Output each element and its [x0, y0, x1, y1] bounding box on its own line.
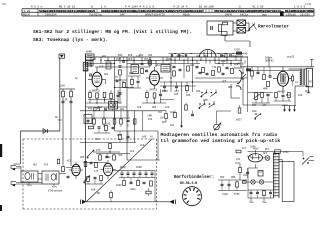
capacitor C12	[206, 72, 209, 74]
svg-text:n3F: n3F	[262, 104, 267, 107]
svg-text:SK3: Toneknap (lys - mørk).: SK3: Toneknap (lys - mørk).	[33, 37, 108, 43]
svg-text:MU 5 10 15: MU 5 10 15	[59, 6, 76, 9]
IF transformer box Ta	[86, 54, 95, 60]
svg-text:FM-enhed: FM-enhed	[47, 189, 62, 193]
wire x231	[230, 84, 232, 98]
svg-text:C02: C02	[170, 111, 175, 114]
wire right bus stub	[311, 59, 313, 67]
scan mark left edge 2	[0, 205, 2, 211]
voltmeter filter pot	[222, 32, 228, 36]
capacitor C18	[94, 176, 97, 178]
voltmeter filter top part	[223, 22, 228, 25]
svg-text:282: 282	[117, 134, 122, 137]
detector IF can dome	[199, 50, 216, 58]
ground box A	[28, 182, 30, 185]
tube socket circle	[183, 187, 202, 206]
resistor R22	[261, 92, 264, 97]
wire antenna down	[59, 58, 61, 131]
resistor R9	[103, 119, 106, 124]
IF can box mid	[109, 102, 118, 110]
resistor R10	[93, 119, 96, 124]
svg-text:B9-9A-9-B: B9-9A-9-B	[180, 181, 197, 185]
resistor R3b	[110, 93, 113, 98]
SK1 contacts row2	[199, 103, 201, 105]
svg-text:pnk: pnk	[247, 155, 252, 158]
FM unit enclosure dashed	[23, 138, 157, 140]
component n4	[127, 135, 130, 137]
svg-text:8M0: 8M0	[228, 86, 233, 89]
svg-text:pnp25: pnp25	[287, 56, 295, 59]
svg-text:P M 1144 M M 2 6 0: P M 1144 M M 2 6 0	[125, 6, 154, 9]
svg-text:273: 273	[96, 149, 101, 152]
wire mains	[279, 161, 294, 163]
capacitor twin a	[62, 100, 65, 102]
mains switch SK4	[303, 158, 305, 160]
resistor R31	[263, 190, 266, 195]
resistor R6	[133, 119, 136, 124]
svg-text:pM1: pM1	[92, 58, 97, 61]
resistor Rf2	[70, 91, 73, 97]
svg-text:Mk10MM4k9kB74M6k: Mk10MM4k9kB74M6k	[285, 9, 314, 13]
dial scale strip dark cell	[280, 11, 284, 16]
svg-text:8CM: 8CM	[129, 72, 134, 75]
balun box A	[21, 171, 38, 182]
svg-text:967: 967	[162, 121, 167, 124]
svg-text:27F2: 27F2	[283, 151, 289, 154]
IF transformer T2 box	[131, 65, 139, 74]
wire h100	[160, 99, 174, 101]
V3 pins	[282, 67, 284, 71]
antenna line tick	[58, 119, 63, 121]
component cluster mid	[186, 85, 189, 90]
resistor R11	[88, 126, 93, 129]
capacitor C1	[117, 94, 120, 96]
svg-text:C86n: C86n	[250, 146, 256, 149]
svg-text:176: 176	[94, 170, 99, 173]
svg-text:4CC: 4CC	[67, 160, 72, 163]
resistor R27	[87, 176, 90, 181]
terminal bottom left	[82, 200, 86, 205]
fm grid part	[62, 166, 65, 171]
svg-text:CR3: CR3	[80, 156, 85, 159]
tube V1 ECH81	[92, 72, 102, 86]
svg-text:86M: 86M	[203, 99, 208, 102]
wire fm mid	[83, 162, 107, 164]
part m3	[104, 108, 106, 111]
svg-text:84n: 84n	[243, 174, 248, 177]
svg-text:5M74911862W52760k1W89WB55M5979: 5M74911862W52760k1W89WB55M5979W71B147	[214, 9, 281, 13]
wire box B out	[59, 173, 66, 175]
FM input terminal J2	[11, 181, 16, 183]
svg-text:MnC: MnC	[33, 164, 38, 167]
svg-text:RC7: RC7	[265, 148, 270, 151]
svg-text:R589: R589	[183, 14, 190, 17]
wire jack pair 2	[16, 182, 42, 184]
wire rect bottom	[255, 164, 257, 168]
wire h70 right	[248, 70, 300, 72]
svg-text:815: 815	[174, 93, 179, 96]
output transformer T5	[300, 69, 302, 86]
svg-text:6M5: 6M5	[220, 55, 225, 58]
capacitor C15	[267, 93, 270, 95]
capacitor C13	[226, 66, 229, 68]
inter-tube cluster	[131, 79, 134, 84]
svg-text:4 13 14 4: 4 13 14 4	[173, 6, 188, 9]
wire lower h152	[93, 151, 120, 153]
capacitor C13b	[222, 72, 225, 74]
ground ps1	[250, 198, 252, 202]
wire speaker return	[295, 85, 309, 87]
resistor R33	[239, 167, 242, 172]
wire jack up	[216, 111, 218, 124]
dial lamp LP2	[251, 180, 255, 184]
svg-text:0C6: 0C6	[305, 90, 310, 93]
fm caps row	[121, 172, 124, 174]
wire ps bottom	[248, 189, 274, 191]
svg-text:C67: C67	[158, 111, 163, 114]
wire v1 drops	[89, 90, 91, 92]
svg-text:4F3: 4F3	[263, 152, 268, 155]
wire h107	[86, 106, 128, 108]
svg-text:09960308B246281948Bk2199k3518M: 09960308B246281948Bk2199k3518M190937k86W…	[101, 9, 204, 13]
svg-text:04FM: 04FM	[225, 14, 232, 17]
wire v2 drops	[146, 98, 148, 103]
IF transformer box Tb	[86, 61, 94, 67]
wire lamps	[242, 181, 251, 183]
svg-text:40C: 40C	[104, 73, 109, 76]
svg-text:kC9: kC9	[190, 64, 195, 67]
wire br top	[218, 179, 247, 181]
capacitor C7	[159, 93, 162, 95]
resistor R15	[187, 66, 190, 71]
resistor R5	[141, 68, 144, 73]
svg-text:8R5C0: 8R5C0	[92, 90, 100, 93]
IF transformer T3 box	[161, 65, 170, 73]
wire jack pair 1	[16, 165, 21, 167]
svg-text:8F5: 8F5	[128, 58, 133, 61]
svg-text:C97: C97	[144, 58, 149, 61]
FM input terminal J1	[11, 165, 16, 167]
svg-text:15F: 15F	[148, 118, 153, 121]
dark label block right	[246, 68, 251, 71]
wire fm cap row bus	[113, 170, 155, 172]
wire right bus	[240, 66, 314, 68]
svg-text:Rørforbindelser:: Rørforbindelser:	[174, 175, 214, 180]
pot R11b	[94, 108, 100, 111]
capacitor twin b	[70, 100, 73, 102]
wire h92 right	[248, 92, 273, 94]
wire voltmeter probes	[233, 22, 237, 24]
svg-text:124D: 124D	[305, 3, 312, 6]
wire br bottom	[218, 190, 247, 192]
resistor R12	[146, 92, 149, 97]
voltmeter filter box	[207, 21, 233, 35]
V1 pins	[96, 67, 98, 72]
dial scale row1 extra ticks	[93, 10, 95, 12]
arrow down AVC	[181, 121, 183, 128]
wire top bus	[86, 56, 249, 58]
wire grounds top	[282, 105, 296, 107]
coupling R25a	[251, 71, 254, 76]
ladder stubs	[93, 111, 95, 119]
resistor R29	[110, 192, 113, 197]
resistor R8	[113, 119, 116, 124]
antenna plug arrow	[43, 129, 47, 134]
voltmeter arrow	[249, 24, 256, 30]
pickup jack	[214, 124, 220, 130]
wire h110 mid	[160, 110, 196, 112]
wire stub 269	[268, 58, 270, 67]
svg-text:12p: 12p	[136, 55, 141, 58]
dial scale strip frame	[22, 8, 314, 10]
svg-text:CR7: CR7	[252, 104, 257, 107]
svg-text:RpC: RpC	[286, 94, 291, 97]
svg-text:732: 732	[110, 106, 115, 109]
wire v x243 down	[242, 84, 244, 105]
svg-text:2R8: 2R8	[152, 106, 157, 109]
svg-text:881: 881	[120, 108, 125, 111]
svg-text:41 2 03: 41 2 03	[252, 6, 264, 9]
resistor R19	[231, 68, 234, 73]
tube V5 ECC85b	[103, 163, 112, 175]
capacitor C28	[269, 191, 272, 193]
svg-text:608: 608	[252, 110, 257, 113]
wire fm r30	[148, 194, 150, 196]
wire lattice rows A	[104, 59, 160, 61]
capacitor C2	[119, 65, 122, 67]
svg-text:69C7: 69C7	[236, 119, 242, 122]
wire rect to lamp	[263, 157, 266, 159]
capacitor C6	[98, 126, 101, 128]
wire left drop	[20, 131, 22, 164]
component q1	[238, 108, 241, 113]
svg-text:84F: 84F	[120, 14, 125, 17]
tuning gang diagonal	[86, 139, 152, 202]
V5 pins	[107, 160, 109, 163]
svg-text:810: 810	[298, 94, 303, 97]
svg-text:6CM: 6CM	[99, 66, 104, 69]
svg-text:R33: R33	[118, 54, 123, 57]
antenna terminal A1	[59, 54, 65, 58]
mains transformer T6	[273, 153, 275, 199]
svg-text:526k01B81590830166131860B913kk: 526k01B81590830166131860B913kk9	[39, 9, 95, 13]
component m1	[174, 112, 177, 117]
voltmeter probe box X2	[237, 28, 246, 34]
wire fm right drop	[154, 171, 156, 202]
upper row parts	[170, 54, 172, 57]
component n3	[119, 134, 122, 139]
wire mains leads	[309, 160, 315, 162]
wire box A-B	[38, 173, 42, 175]
wire avc drop	[181, 82, 183, 121]
svg-text:C69: C69	[196, 90, 201, 93]
ground G3	[294, 106, 296, 112]
ferrite rod hook	[237, 70, 242, 84]
svg-text:k6R: k6R	[91, 189, 96, 192]
wire fm caps bottom	[119, 177, 155, 179]
svg-text:5M7Ck: 5M7Ck	[150, 88, 158, 92]
resistor R28	[100, 175, 103, 180]
svg-text:813C: 813C	[116, 184, 122, 187]
wire h105 right	[243, 104, 288, 106]
wire twin lead down a	[62, 97, 64, 102]
wire T6 inner loop	[281, 159, 283, 201]
wire h103 right	[252, 102, 270, 104]
svg-text:kCC: kCC	[242, 147, 247, 150]
coupling C14b	[269, 75, 272, 77]
svg-text:C23: C23	[221, 60, 226, 63]
capacitor C16	[67, 175, 70, 177]
V4 pins	[75, 162, 77, 165]
svg-text:44003: 44003	[277, 91, 285, 94]
svg-text:RnR: RnR	[128, 54, 133, 57]
svg-text:n08: n08	[196, 55, 201, 58]
svg-text:F6M: F6M	[116, 58, 121, 61]
SK3 switch	[255, 113, 257, 115]
svg-text:0kp: 0kp	[232, 55, 237, 58]
svg-text:575F: 575F	[234, 193, 240, 196]
wire left rail	[85, 54, 87, 202]
svg-text:7R6: 7R6	[118, 154, 123, 157]
resistor R3	[103, 92, 106, 97]
svg-text:Modtageren omstilles automatis: Modtageren omstilles automatisk fra radi…	[161, 132, 278, 138]
resistor R32	[236, 182, 239, 187]
svg-text:4M4: 4M4	[231, 176, 236, 179]
wire twin lead top	[60, 88, 75, 90]
switch FM lower	[87, 151, 93, 157]
wire mid rows	[160, 59, 240, 61]
svg-text:558: 558	[180, 55, 185, 58]
rectifier V6 EZ80	[249, 154, 263, 162]
svg-text:F8p: F8p	[88, 107, 93, 110]
fm switch arrow 2	[84, 177, 90, 183]
tube V4 ECC85a	[72, 164, 80, 176]
tube V3 EL84	[278, 71, 289, 86]
resistor R25	[84, 161, 87, 166]
SK1 stubs	[206, 90, 208, 93]
svg-text:Mkk: Mkk	[204, 55, 209, 58]
capacitor C30	[228, 183, 231, 185]
antenna coil L1	[83, 63, 88, 72]
svg-text:43k: 43k	[148, 54, 153, 57]
wire mid cols	[162, 57, 164, 64]
fm top component	[57, 159, 59, 164]
svg-text:M U 5 m: M U 5 m	[31, 6, 43, 9]
V1 grid cap	[89, 74, 91, 77]
coupling C14	[257, 71, 260, 73]
svg-text:693: 693	[220, 176, 225, 179]
resistor R23	[267, 81, 270, 86]
voltmeter probe box X1	[237, 20, 246, 26]
wire ladder cols	[134, 111, 136, 143]
resistor R2	[96, 93, 99, 98]
svg-text:3n0: 3n0	[140, 144, 145, 147]
wire lattice cols A	[90, 57, 92, 67]
resistor R20	[165, 113, 168, 118]
wire r20	[165, 111, 167, 114]
wire upper parallel	[169, 53, 245, 55]
svg-text:48MM: 48MM	[86, 51, 92, 54]
ground G1	[284, 106, 286, 112]
svg-text:1304: 1304	[59, 85, 65, 88]
terminal bottom right	[170, 200, 174, 205]
svg-text:k4C1n: k4C1n	[240, 13, 249, 17]
speaker LS	[306, 68, 312, 87]
wire fm r29	[110, 190, 112, 192]
svg-text:719: 719	[212, 66, 217, 69]
resistor R30	[146, 191, 151, 194]
component n5	[109, 143, 112, 148]
fm bottom parts	[123, 180, 126, 185]
svg-text:735: 735	[162, 90, 167, 93]
svg-text:31kC: 31kC	[105, 156, 111, 159]
svg-text:k28: k28	[165, 106, 170, 109]
wire fm to V4	[66, 167, 72, 169]
ground G2	[289, 106, 291, 112]
wire h99	[88, 99, 115, 101]
SK2 switch	[242, 72, 244, 74]
component m2	[191, 113, 194, 115]
svg-text:p3Rp16: p3Rp16	[286, 14, 296, 17]
resistor R17	[212, 70, 215, 75]
volume pot R21	[255, 93, 258, 100]
wire twin lead down b	[70, 97, 72, 102]
voltmeter filter resistor	[219, 24, 222, 32]
wire v3 cathode ground	[294, 86, 296, 106]
fm osc parts row	[96, 153, 130, 155]
svg-text:4RM: 4RM	[263, 88, 268, 91]
svg-text:k8F: k8F	[142, 136, 147, 139]
svg-text:73pR: 73pR	[222, 193, 228, 196]
svg-text:8FMp74254770: 8FMp74254770	[145, 14, 165, 17]
svg-text:402: 402	[102, 55, 107, 58]
svg-text:M0nM: M0nM	[23, 14, 30, 17]
wire h103	[86, 102, 123, 104]
capacitor C9	[179, 68, 182, 70]
pair row parts	[122, 60, 125, 62]
svg-text:k2M: k2M	[147, 61, 152, 64]
svg-text:20: 20	[160, 117, 164, 120]
scan mark left edge 1	[0, 144, 2, 157]
svg-text:ppp: ppp	[262, 14, 267, 17]
svg-text:7ppR25np: 7ppR25np	[89, 14, 103, 17]
capacitor C5b	[127, 119, 130, 121]
svg-text:Rørvoltmeter: Rørvoltmeter	[258, 25, 289, 30]
component n2	[112, 126, 115, 128]
V3 grid parts	[275, 92, 278, 97]
component n1	[105, 125, 108, 130]
svg-text:4CR: 4CR	[137, 106, 142, 109]
capacitor C17	[90, 161, 93, 163]
resistor R4	[119, 70, 122, 75]
wire antenna elbow	[21, 130, 60, 132]
svg-text:699: 699	[186, 94, 191, 97]
pilot lamp LP1	[265, 156, 270, 161]
V2 pins	[154, 67, 156, 71]
wire bottom bus	[86, 201, 172, 203]
svg-text:91n: 91n	[168, 58, 173, 61]
svg-text:B1 88-10M: B1 88-10M	[199, 6, 214, 9]
svg-text:kF8: kF8	[130, 150, 135, 153]
wire rect top	[255, 150, 257, 156]
wire ladder rows	[80, 110, 160, 112]
resistor R14	[173, 71, 176, 76]
svg-text:76CR: 76CR	[234, 49, 240, 52]
resistor R7	[120, 119, 123, 124]
svg-text:280: 280	[106, 123, 111, 126]
wire speaker loop	[304, 68, 306, 70]
svg-text:454R: 454R	[136, 166, 142, 169]
